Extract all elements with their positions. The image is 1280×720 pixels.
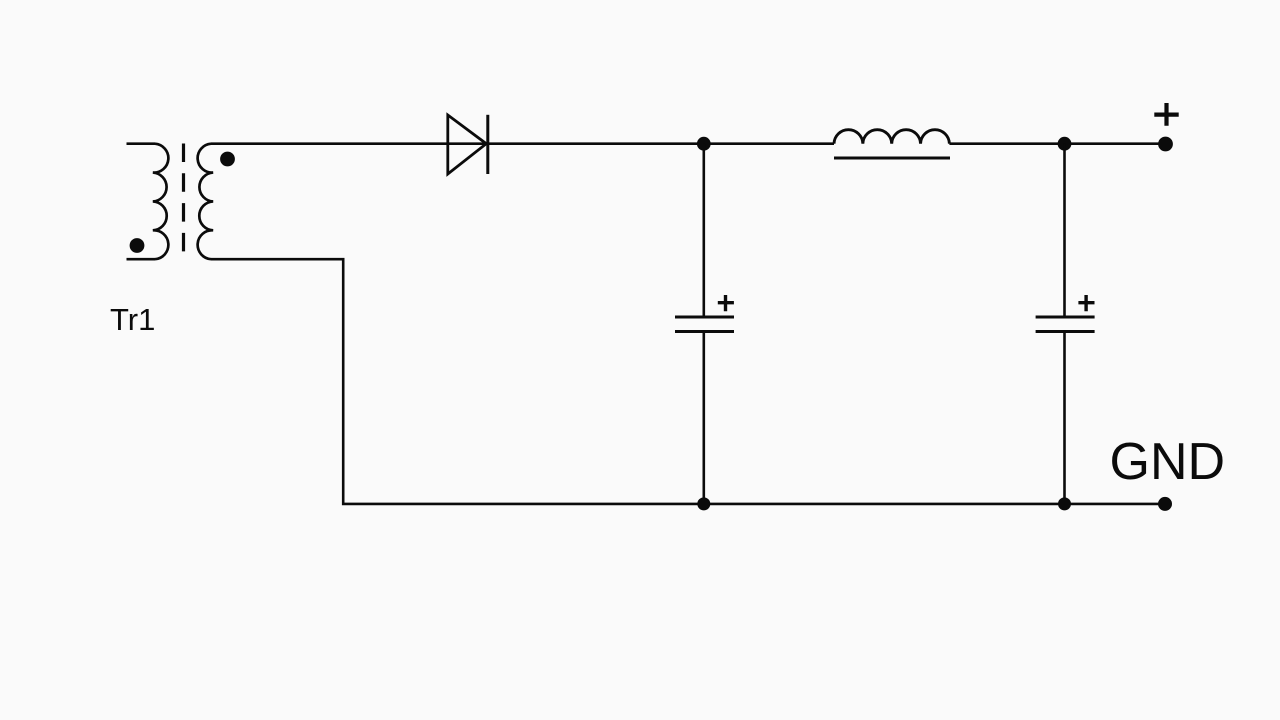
capacitor C1 bottom wire <box>702 332 705 504</box>
capacitor C1 bottom plate <box>675 330 734 333</box>
label + (output polarity) <box>1154 103 1178 126</box>
transformer Tr1 secondary winding <box>198 144 214 260</box>
ground terminal node dot <box>1158 497 1172 511</box>
wire bottom return: transformer secondary bottom lead, corner, ground rail <box>211 259 1165 504</box>
diode D1 triangle (anode) <box>448 115 487 174</box>
transformer Tr1 primary bottom lead wire <box>127 258 156 261</box>
svg-text:GND: GND <box>1110 433 1226 491</box>
capacitor C1 top plate <box>675 316 734 319</box>
capacitor C2 polarity plus <box>1078 295 1094 311</box>
node junction at capacitor C2 top <box>1058 137 1072 151</box>
capacitor C1 polarity plus <box>718 295 734 311</box>
capacitor C1 top wire <box>702 144 705 317</box>
transformer Tr1 secondary polarity dot <box>220 152 235 167</box>
capacitor C2 top wire <box>1063 144 1066 317</box>
wire top net: inductor right to output terminal <box>949 142 1165 145</box>
inductor L1 core line <box>834 157 950 160</box>
node junction at capacitor C2 bottom <box>1058 497 1071 510</box>
node junction at capacitor C1 bottom <box>697 497 710 510</box>
svg-text:Tr1: Tr1 <box>110 302 155 337</box>
transformer Tr1 primary polarity dot <box>130 238 145 253</box>
capacitor C2 bottom wire <box>1063 332 1066 504</box>
node junction at capacitor C1 top <box>697 137 711 151</box>
capacitor C2 top plate <box>1036 316 1095 319</box>
transformer Tr1 primary winding <box>153 144 169 260</box>
wire top net: transformer secondary to inductor left <box>211 142 834 145</box>
inductor L1 winding <box>834 130 949 144</box>
diode D1 cathode bar <box>486 115 489 174</box>
output terminal node dot (+) <box>1158 137 1173 152</box>
transformer Tr1 core dashed line <box>182 144 185 252</box>
transformer Tr1 primary top lead wire <box>127 142 156 145</box>
capacitor C2 bottom plate <box>1036 330 1095 333</box>
